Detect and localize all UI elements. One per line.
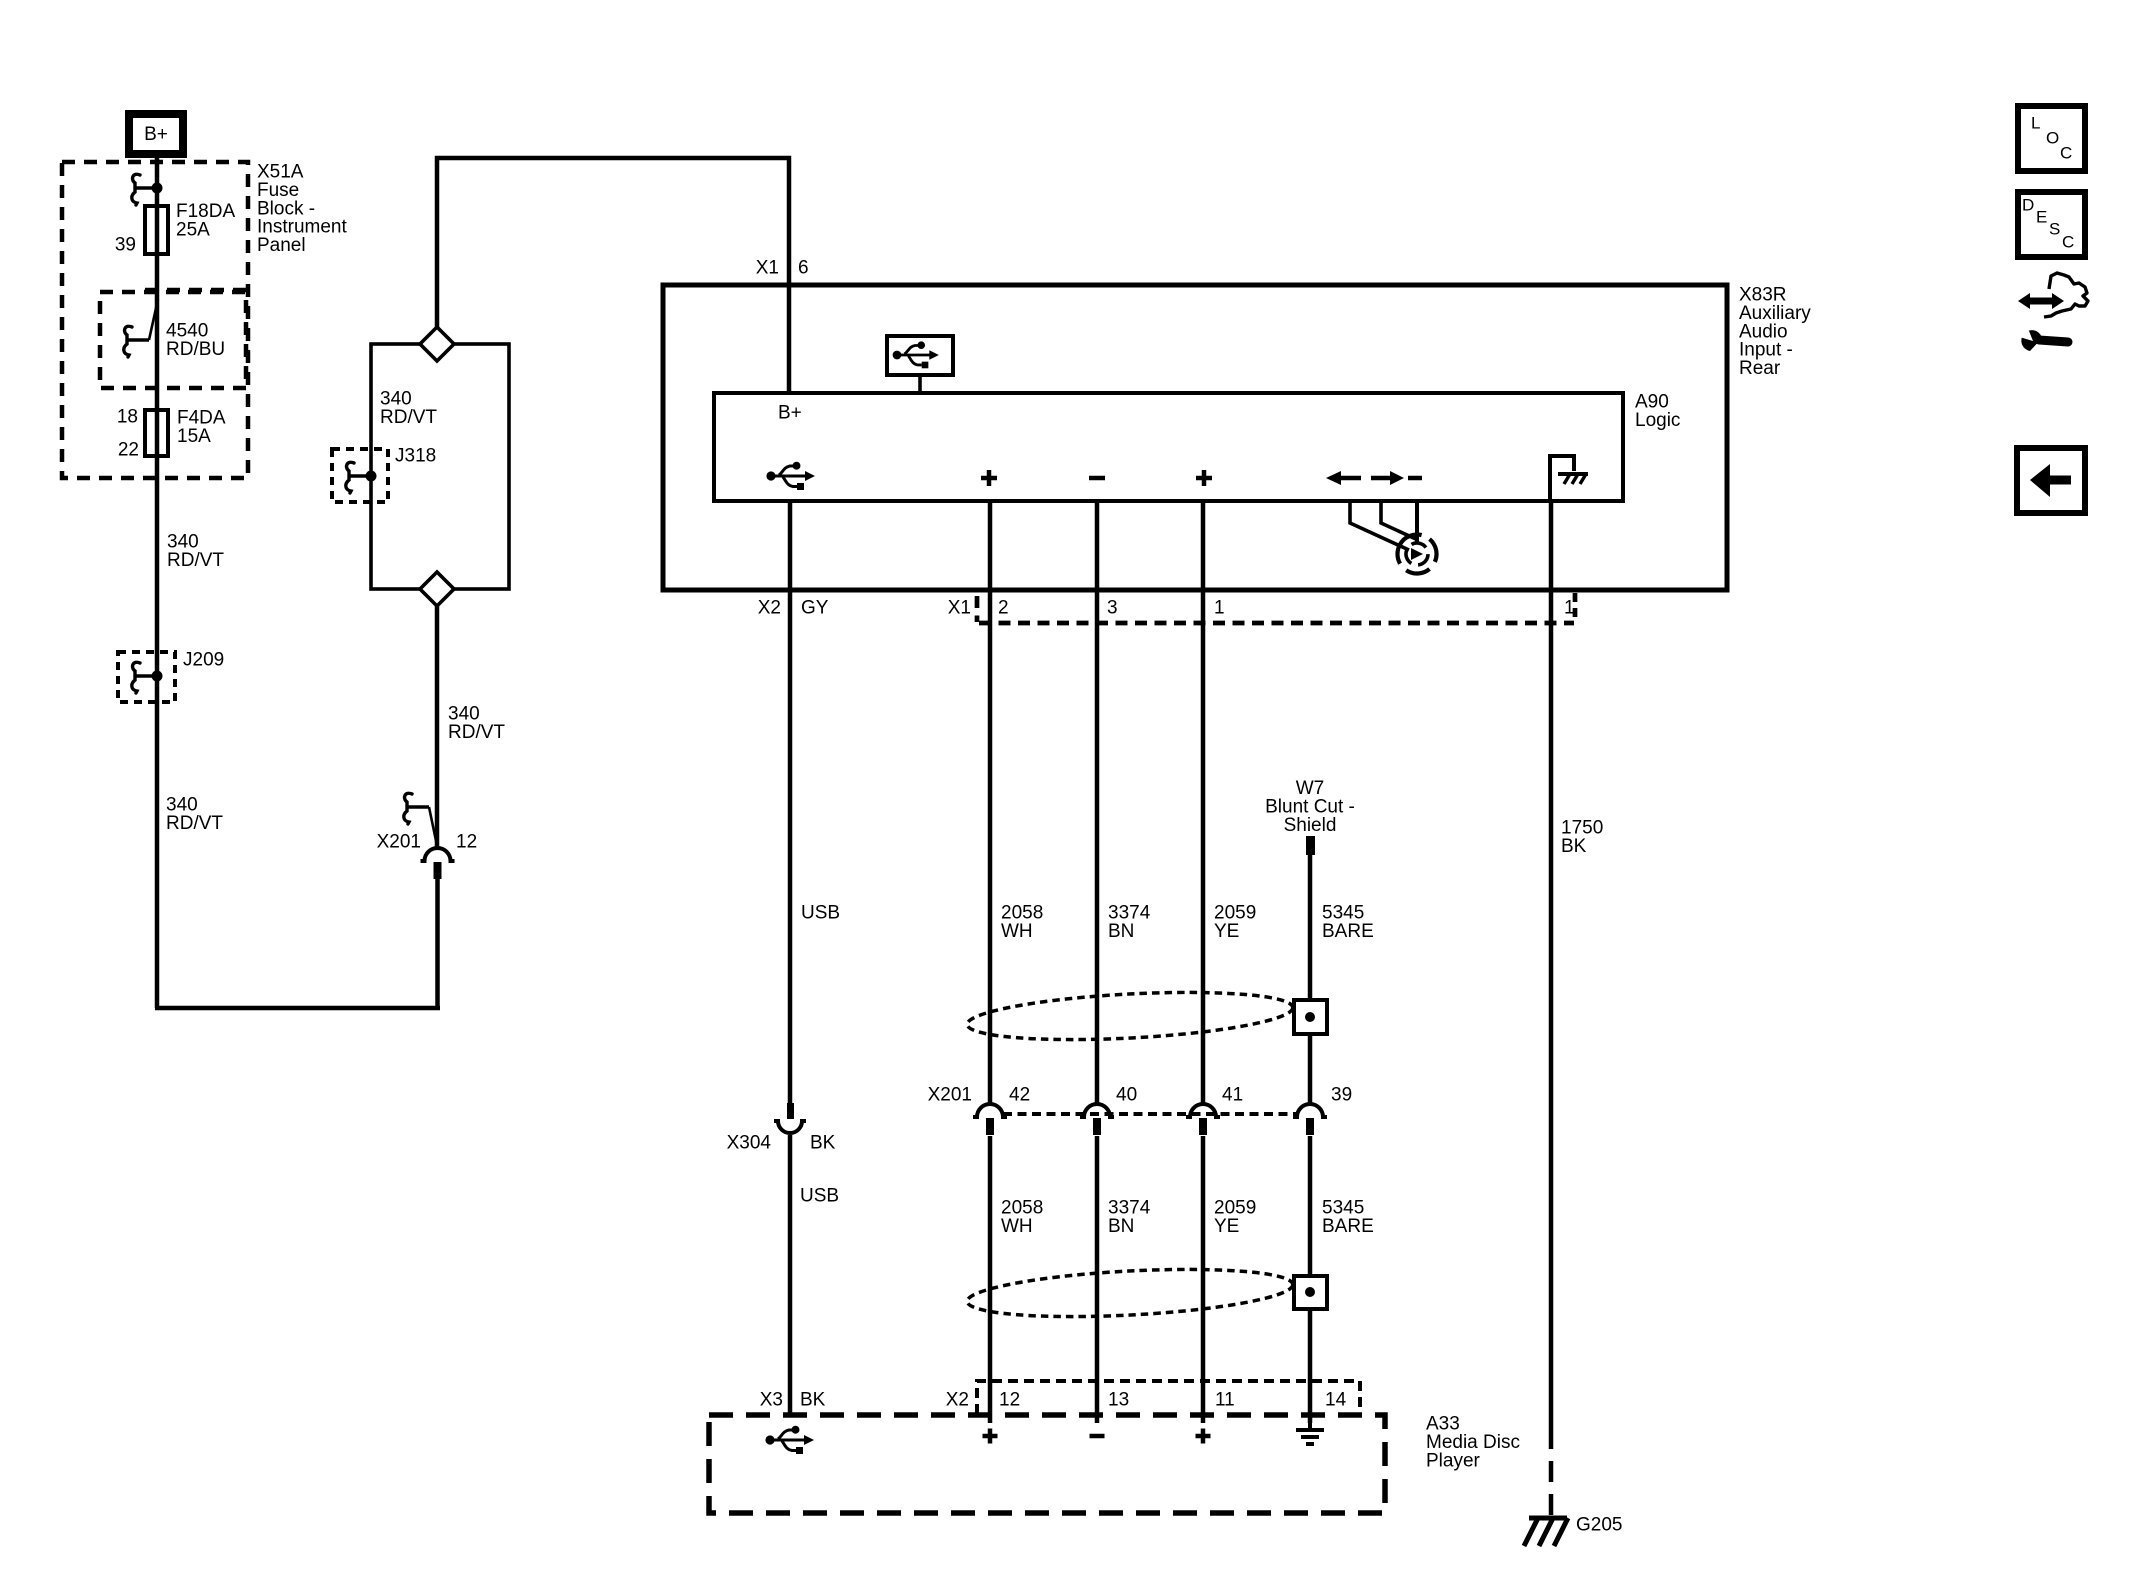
svg-text:B+: B+ — [778, 403, 802, 424]
svg-text:J318: J318 — [395, 446, 436, 467]
svg-text:WH: WH — [1001, 921, 1033, 942]
svg-text:BARE: BARE — [1322, 1216, 1374, 1237]
ground pin symbol inside A90 — [1550, 456, 1574, 501]
dashed line X201 connector row — [1003, 1112, 1297, 1116]
module X83R outer box — [663, 285, 1727, 590]
headphone jack plug symbol — [1350, 501, 1409, 550]
shield ellipse upper — [966, 985, 1294, 1046]
svg-text:12: 12 — [999, 1390, 1020, 1411]
plus pin symbol 2 — [1196, 476, 1212, 481]
svg-text:GY: GY — [801, 598, 829, 619]
wire 3374 BN lower — [1095, 1136, 1100, 1423]
svg-text:O: O — [2046, 129, 2059, 148]
svg-text:YE: YE — [1214, 1216, 1239, 1237]
connector X2 dashed outline — [977, 1381, 1360, 1414]
svg-text:YE: YE — [1214, 921, 1239, 942]
svg-text:D: D — [2022, 196, 2034, 215]
svg-text:1: 1 — [1564, 598, 1575, 619]
svg-text:B+: B+ — [144, 124, 168, 145]
USB symbol in port box — [893, 341, 939, 368]
plus symbol pin 11 — [1196, 1434, 1211, 1439]
svg-text:J209: J209 — [183, 650, 224, 671]
fuse F4DA 15A — [145, 410, 168, 456]
splice J209 dashed box — [118, 652, 175, 702]
svg-text:WH: WH — [1001, 1216, 1033, 1237]
wire 2059 YE upper — [1201, 501, 1206, 1104]
shield ellipse lower — [966, 1262, 1294, 1323]
splice J318 terminal — [349, 474, 371, 478]
svg-text:X2: X2 — [946, 1390, 969, 1411]
svg-text:X1: X1 — [948, 598, 971, 619]
inner dashed box 4540 RD/BU — [100, 292, 246, 388]
svg-text:Rear: Rear — [1739, 358, 1781, 379]
svg-text:X1: X1 — [756, 258, 779, 279]
svg-text:Player: Player — [1426, 1450, 1481, 1471]
legend LOC box — [2018, 106, 2085, 171]
svg-text:BK: BK — [1561, 836, 1587, 857]
svg-text:42: 42 — [1009, 1085, 1030, 1106]
svg-text:USB: USB — [800, 1186, 839, 1207]
connector X1 dashed outline under module — [979, 621, 1574, 626]
svg-text:41: 41 — [1222, 1085, 1243, 1106]
splice J209 terminal — [135, 674, 157, 678]
svg-text:RD/VT: RD/VT — [448, 722, 505, 743]
connector terminal at fuse block input — [135, 186, 157, 190]
svg-text:22: 22 — [118, 440, 139, 461]
svg-text:X201: X201 — [928, 1085, 972, 1106]
connector X201 pin 39 — [1293, 1104, 1327, 1117]
audio in/out arrows — [1338, 476, 1361, 481]
fuse block X51A dashed outline — [62, 162, 248, 478]
svg-text:X304: X304 — [727, 1133, 772, 1154]
inline connector X201-12 symbol — [421, 848, 455, 861]
svg-text:C: C — [2060, 144, 2072, 163]
svg-text:G205: G205 — [1576, 1515, 1622, 1536]
wire USB lower — [788, 1135, 793, 1415]
wire 3374 BN upper — [1095, 501, 1100, 1104]
svg-text:2: 2 — [998, 598, 1009, 619]
svg-text:RD/BU: RD/BU — [166, 339, 225, 360]
svg-text:X2: X2 — [758, 598, 781, 619]
plus pin symbol 1 — [981, 476, 997, 481]
shield termination box upper — [1294, 1000, 1327, 1034]
connector terminal X201-12 — [407, 805, 429, 809]
blunt cut end symbol — [1306, 836, 1315, 855]
component A33 dashed box — [709, 1415, 1385, 1513]
earth ground symbol pin 14 — [1308, 1423, 1312, 1430]
fuse block internal divider — [145, 288, 248, 293]
svg-text:18: 18 — [117, 407, 138, 428]
svg-text:12: 12 — [456, 832, 477, 853]
svg-text:BN: BN — [1108, 921, 1134, 942]
wire 1750 BK — [1549, 501, 1554, 1428]
minus symbol pin 13 — [1090, 1434, 1105, 1439]
ground G205 symbol — [1529, 1516, 1567, 1521]
svg-text:BARE: BARE — [1322, 921, 1374, 942]
wire 2058 WH lower — [988, 1136, 993, 1423]
svg-text:Panel: Panel — [257, 235, 306, 256]
svg-text:X3: X3 — [760, 1390, 783, 1411]
wire below X201-12 — [435, 878, 440, 1008]
svg-text:X201: X201 — [377, 832, 421, 853]
svg-text:RD/VT: RD/VT — [380, 407, 437, 428]
top diamond of inline connector box — [420, 327, 454, 361]
USB port box above A90 — [887, 336, 953, 375]
USB symbol inside A90 — [766, 462, 815, 490]
svg-text:Shield: Shield — [1284, 815, 1337, 836]
battery feed B+ box — [129, 114, 183, 154]
svg-text:40: 40 — [1116, 1085, 1137, 1106]
wire 2059 YE lower — [1201, 1136, 1206, 1423]
fuse F18DA 25A — [145, 206, 168, 254]
wire B+ to fuse block — [155, 158, 160, 1008]
wire bottom horizontal run — [155, 1006, 440, 1011]
svg-text:Logic: Logic — [1635, 410, 1680, 431]
svg-text:25A: 25A — [176, 219, 210, 240]
svg-text:6: 6 — [798, 258, 809, 279]
legend back arrow box — [2017, 448, 2085, 513]
svg-text:RD/VT: RD/VT — [167, 550, 224, 571]
wire 2058 WH upper — [988, 501, 993, 1104]
connector X201 pin 41 — [1186, 1104, 1220, 1117]
svg-text:RD/VT: RD/VT — [166, 813, 223, 834]
legend wire-repair icon — [2027, 298, 2055, 305]
wire 1750 BK dashed tail — [1549, 1428, 1554, 1516]
svg-text:S: S — [2049, 220, 2060, 239]
svg-text:39: 39 — [115, 235, 136, 256]
svg-text:39: 39 — [1331, 1085, 1352, 1106]
svg-text:BK: BK — [800, 1390, 826, 1411]
svg-text:BN: BN — [1108, 1216, 1134, 1237]
shield drain wire upper — [1308, 855, 1313, 1104]
svg-text:13: 13 — [1108, 1390, 1129, 1411]
inline connector box (340 RD/VT pass-through) — [371, 344, 509, 589]
splice J318 dashed box — [332, 449, 388, 502]
svg-text:1: 1 — [1214, 598, 1225, 619]
bottom diamond of inline connector box — [420, 572, 454, 606]
svg-text:L: L — [2031, 114, 2040, 133]
connector terminal 4540 — [127, 338, 149, 342]
wire from box top to X83R — [437, 158, 789, 393]
USB symbol inside A33 — [765, 1426, 814, 1454]
svg-text:E: E — [2036, 208, 2047, 227]
svg-text:14: 14 — [1325, 1390, 1347, 1411]
legend DESC box — [2018, 192, 2085, 257]
shield termination box lower — [1294, 1276, 1327, 1309]
svg-text:USB: USB — [801, 903, 840, 924]
svg-text:15A: 15A — [177, 426, 211, 447]
plus symbol pin 12 — [983, 1434, 998, 1439]
minus pin symbol — [1089, 476, 1105, 481]
connector X201 pin 40 — [1080, 1104, 1114, 1117]
svg-text:11: 11 — [1215, 1390, 1235, 1411]
shield drain wire lower — [1308, 1136, 1313, 1423]
connector X201 pin 42 — [973, 1104, 1007, 1117]
svg-text:C: C — [2062, 233, 2074, 252]
connector X304 pin — [787, 1103, 794, 1119]
wire USB gray — [788, 501, 793, 1103]
svg-text:BK: BK — [810, 1133, 836, 1154]
logic block A90 box — [714, 393, 1623, 501]
svg-text:3: 3 — [1107, 598, 1118, 619]
wire from box bottom diamond down — [435, 606, 440, 850]
